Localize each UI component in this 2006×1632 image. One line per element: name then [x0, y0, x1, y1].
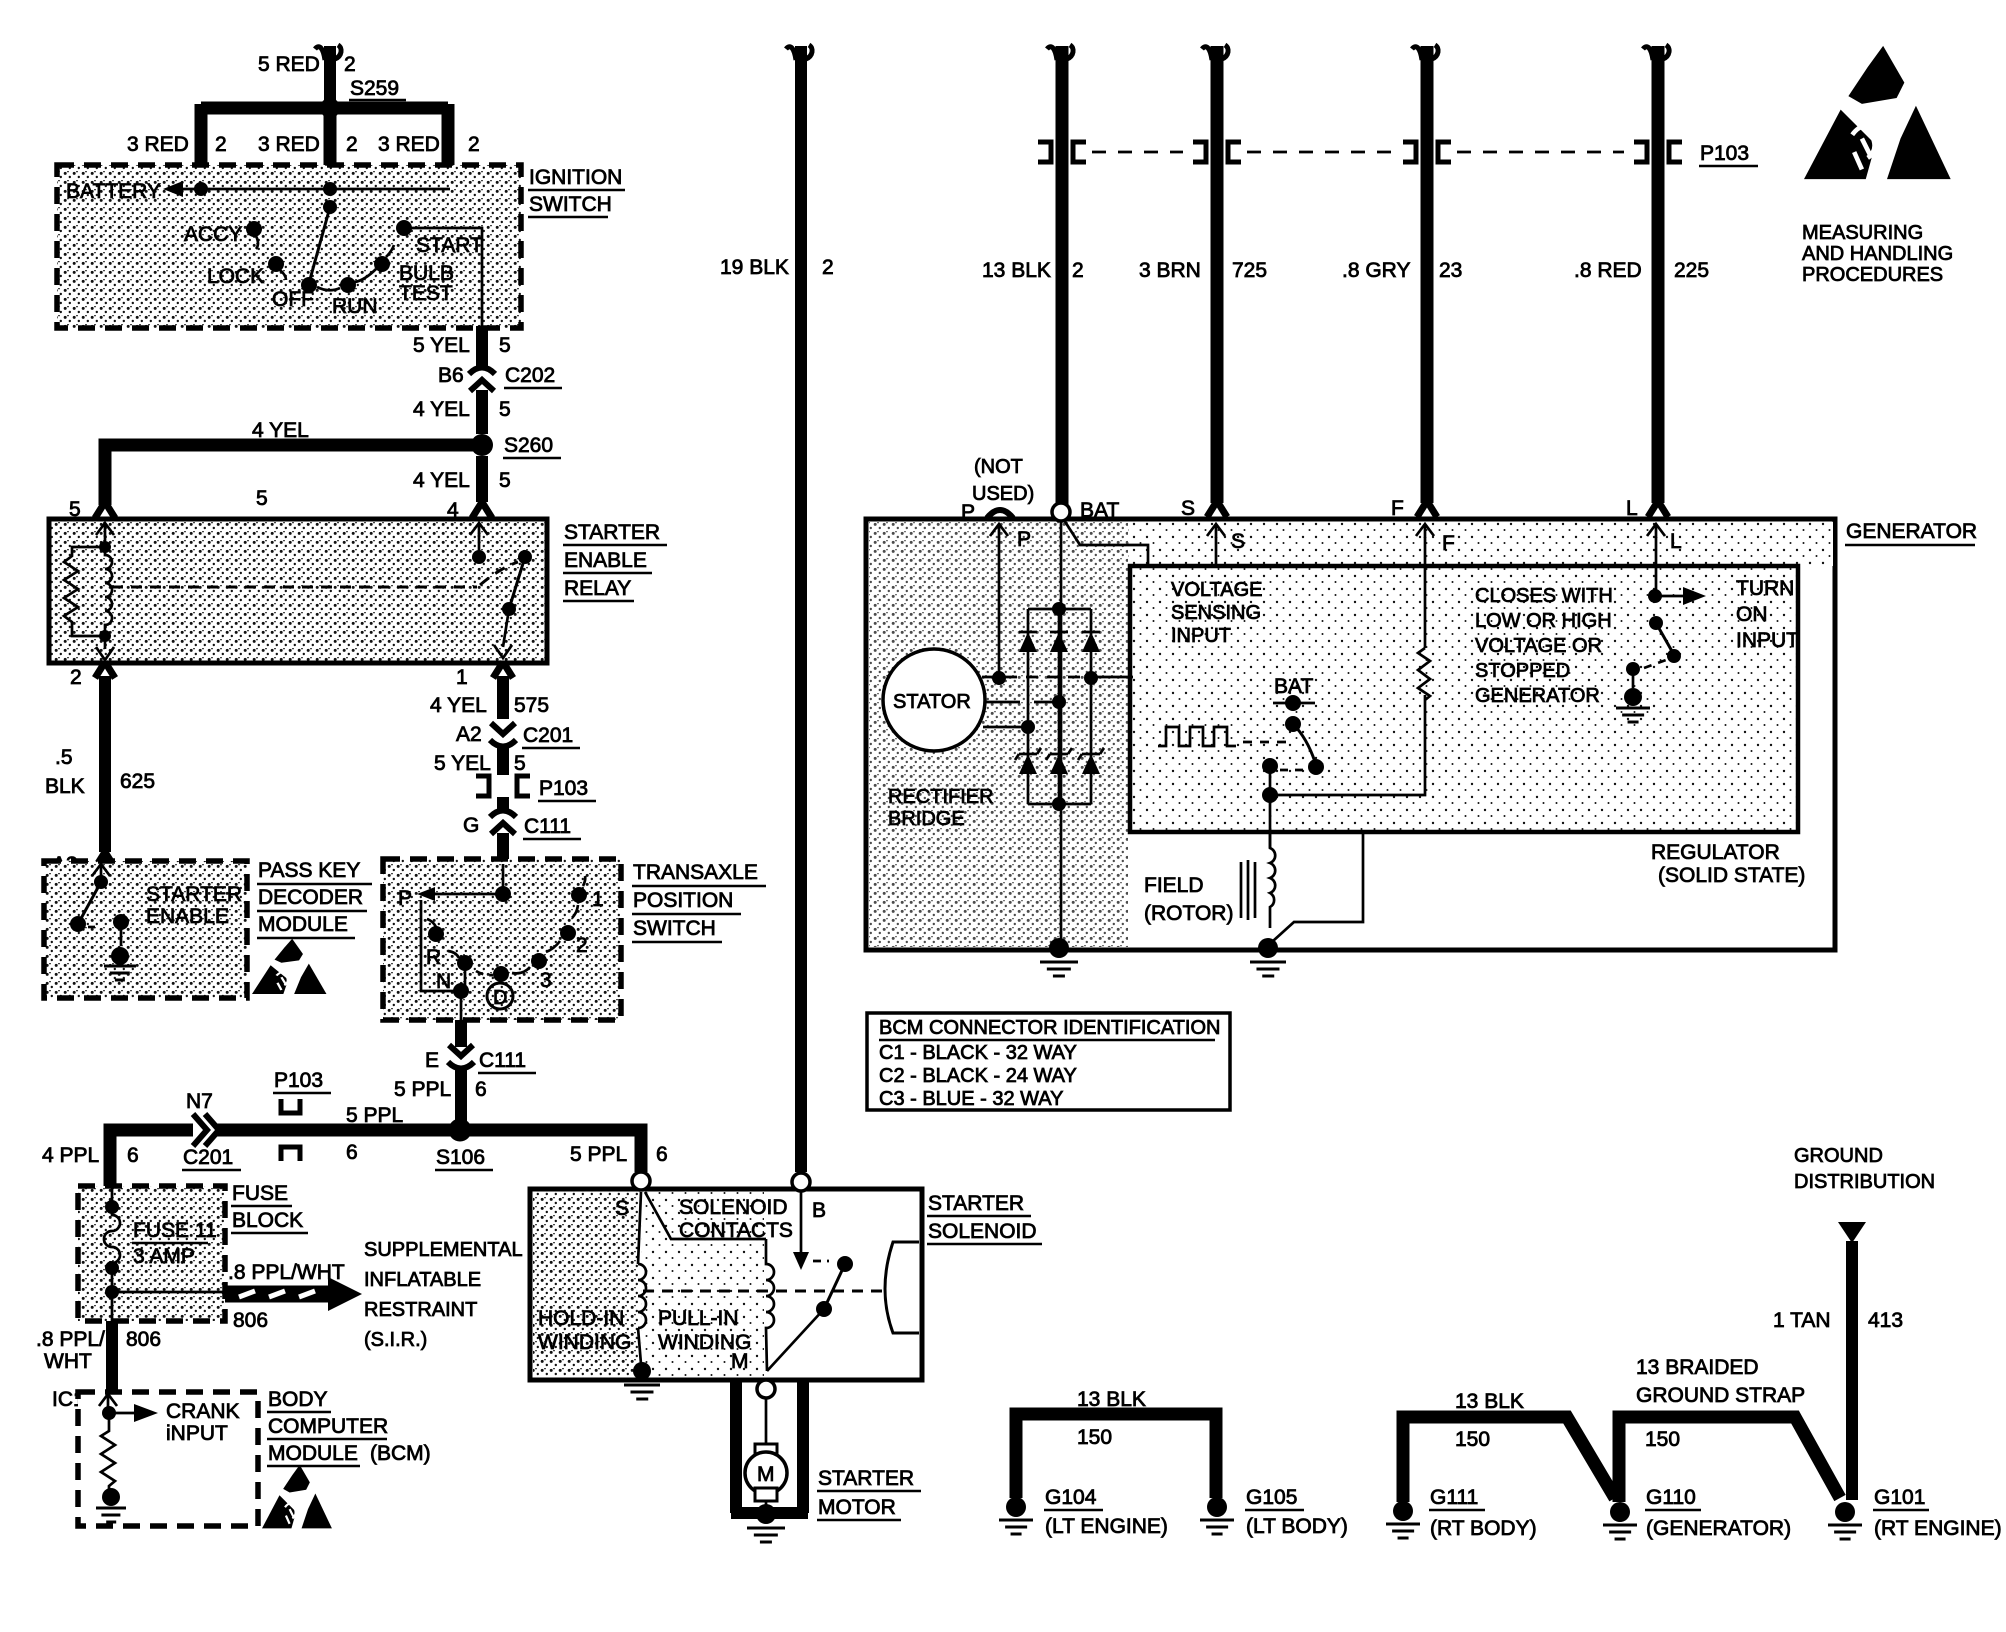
svg-text:IGNITION: IGNITION: [529, 166, 622, 189]
svg-text:3: 3: [540, 969, 552, 992]
svg-text:1 TAN: 1 TAN: [1773, 1309, 1831, 1332]
wire 13 braided ground strap 150 (G110-G101): [1619, 1417, 1840, 1502]
ground (field): [1250, 962, 1286, 976]
svg-text:WINDING: WINDING: [538, 1331, 631, 1354]
crank input arrow: [109, 1412, 136, 1415]
svg-text:3 RED: 3 RED: [378, 133, 440, 156]
starter enable switch entry arrow: [92, 864, 110, 878]
svg-text:725: 725: [1232, 259, 1267, 282]
wire BAT to regulator: [1064, 520, 1148, 564]
svg-text:P103: P103: [1700, 142, 1749, 165]
wire 5 PPL: [455, 1068, 467, 1124]
diodes top row: [1019, 632, 1037, 652]
svg-text:ACCY: ACCY: [184, 223, 242, 246]
starter solenoid box: [530, 1189, 922, 1380]
wire 13 BLK 2: [1056, 46, 1069, 512]
wire 5 PPL main bus: [110, 1130, 641, 1186]
svg-text:13 BLK: 13 BLK: [982, 259, 1051, 282]
svg-text:MEASURING: MEASURING: [1802, 222, 1923, 244]
wire .5 BLK 625: [99, 676, 111, 852]
svg-text:P: P: [1017, 528, 1031, 551]
wire contact to M: [767, 1309, 824, 1371]
svg-text:STARTER: STARTER: [146, 883, 242, 906]
ground stud (motor): [756, 1504, 776, 1524]
svg-text:(RT BODY): (RT BODY): [1430, 1517, 1537, 1540]
contact OFF: [301, 277, 317, 293]
svg-text:5 YEL: 5 YEL: [413, 334, 470, 357]
wire 13 BLK 150 (G104-G105): [1016, 1414, 1216, 1498]
terminal S: [632, 1172, 650, 1190]
turn on arrow: [1660, 595, 1685, 598]
svg-text:M: M: [757, 1463, 775, 1486]
connector C111 (E): [449, 1045, 473, 1056]
svg-text:RESTRAINT: RESTRAINT: [364, 1299, 477, 1321]
node coil top: [99, 541, 111, 553]
svg-text:SWITCH: SWITCH: [633, 917, 716, 940]
svg-text:4 YEL: 4 YEL: [252, 419, 309, 442]
wire end hook top: [315, 45, 341, 60]
svg-text:TEST: TEST: [399, 282, 453, 305]
svg-text:S: S: [1231, 530, 1245, 553]
connector IC11: [102, 1391, 122, 1407]
svg-text:INPUT: INPUT: [1171, 625, 1231, 647]
ground stud G111: [1393, 1501, 1413, 1521]
svg-text:USED): USED): [972, 483, 1034, 505]
wire .8 PPL/WHT 806 below fuse block: [106, 1321, 118, 1390]
svg-text:PULL-IN: PULL-IN: [658, 1307, 739, 1330]
node L switch pivot: [1649, 616, 1663, 630]
connector P103 on bus upper: [281, 1099, 300, 1113]
connector P103 inline: [476, 776, 489, 796]
wire entry to wiper node: [502, 864, 505, 894]
svg-text:6: 6: [346, 1141, 358, 1164]
field rotor coil: [1270, 832, 1275, 928]
svg-text:N: N: [436, 970, 451, 993]
contact BULB TEST: [374, 256, 390, 272]
svg-text:S106: S106: [436, 1146, 485, 1169]
generator box: [866, 519, 1835, 950]
BCM connector identification box: [867, 1013, 1230, 1110]
relay actuator dashed link: [112, 586, 477, 589]
svg-text:ENABLE: ENABLE: [146, 905, 229, 928]
svg-text:C201: C201: [183, 1146, 233, 1169]
circle D: [487, 983, 513, 1009]
svg-text:C1 - BLACK - 32 WAY: C1 - BLACK - 32 WAY: [879, 1042, 1077, 1064]
dash L contacts: [1644, 660, 1666, 668]
svg-text:P103: P103: [274, 1069, 323, 1092]
svg-text:5 PPL: 5 PPL: [346, 1104, 403, 1127]
svg-text:13 BLK: 13 BLK: [1077, 1388, 1146, 1411]
fuse block box: [78, 1186, 225, 1321]
dash N-wiper: [476, 971, 493, 975]
svg-text:(NOT: (NOT: [974, 456, 1023, 478]
body computer module box: [78, 1392, 258, 1526]
S entry arrow: [1207, 524, 1225, 538]
svg-text:2: 2: [344, 53, 356, 76]
svg-text:ENABLE: ENABLE: [564, 549, 647, 572]
ground stud G101: [1835, 1502, 1855, 1522]
svg-text:CONTACTS: CONTACTS: [679, 1219, 793, 1242]
wire B into contacts w/ arrow: [800, 1191, 803, 1252]
svg-text:HOLD-IN: HOLD-IN: [538, 1307, 624, 1330]
connector pin A3: [95, 852, 115, 868]
ground (turn-on): [1616, 708, 1650, 722]
svg-text:5 RED: 5 RED: [258, 53, 320, 76]
connector P103 on bus lower: [281, 1147, 300, 1161]
svg-text:L: L: [1670, 530, 1682, 553]
svg-text:STARTER: STARTER: [928, 1192, 1024, 1215]
contact 1: [571, 887, 587, 903]
relay pin4 entry arrow: [470, 523, 488, 537]
svg-text:F: F: [1391, 497, 1404, 520]
node phase-right column: [1084, 671, 1098, 685]
svg-text:SENSING: SENSING: [1171, 602, 1261, 624]
wire M to motor: [765, 1398, 768, 1444]
hook top 13 BLK: [1047, 45, 1073, 60]
svg-text:C3 - BLUE - 32 WAY: C3 - BLUE - 32 WAY: [879, 1088, 1064, 1110]
svg-text:STOPPED: STOPPED: [1475, 660, 1570, 682]
svg-text:F: F: [1442, 532, 1455, 555]
square wave symbol: [1158, 727, 1236, 746]
svg-text:4 YEL: 4 YEL: [413, 469, 470, 492]
wire drop right 3 RED: [442, 104, 455, 183]
terminal M: [757, 1380, 775, 1398]
svg-text:INFLATABLE: INFLATABLE: [364, 1269, 481, 1291]
svg-text:BRIDGE: BRIDGE: [888, 808, 965, 830]
svg-text:2: 2: [576, 934, 588, 957]
shading pull-in section: [641, 1192, 764, 1377]
contact LOCK: [268, 256, 284, 272]
crank input entry arrow: [99, 1394, 117, 1408]
node switch pivot (regulator): [1285, 716, 1301, 732]
dash to fixed contact: [88, 926, 100, 929]
svg-text:413: 413: [1868, 1309, 1903, 1332]
diodes bottom row (zener): [1019, 754, 1037, 774]
wire output exits box: [460, 991, 463, 1022]
relay contact lower: [502, 602, 516, 616]
wire START to box bottom: [410, 228, 482, 330]
coil (relay winding): [105, 547, 112, 635]
svg-text:STARTER: STARTER: [818, 1467, 914, 1490]
svg-text:BAT: BAT: [1274, 675, 1313, 698]
fuse FUSE 11 3 AMP: [104, 1207, 120, 1268]
wire hold-in to ground: [638, 1328, 641, 1364]
shading hold-in section: [533, 1192, 638, 1377]
node fuse bottom: [105, 1261, 119, 1275]
L arm contact: [1667, 649, 1681, 663]
contact arm end: [1308, 759, 1324, 775]
contact RUN: [340, 277, 356, 293]
contact R: [428, 926, 444, 942]
contact ACCY: [246, 221, 262, 237]
dash between contacts: [1280, 769, 1306, 772]
svg-text:D: D: [493, 987, 507, 1009]
svg-text:G111: G111: [1430, 1486, 1478, 1509]
node entry: [495, 886, 511, 902]
svg-text:GROUND STRAP: GROUND STRAP: [1636, 1384, 1805, 1407]
stator circle: [883, 649, 985, 751]
wire to P contact w/ arrow: [432, 893, 503, 896]
ESD symbol (pass key): [252, 939, 326, 994]
svg-text:REGULATOR: REGULATOR: [1651, 841, 1780, 864]
wire L contact to ground: [1632, 669, 1635, 688]
splice S259: [320, 98, 340, 118]
svg-text:CRANK: CRANK: [166, 1400, 240, 1423]
svg-text:BATTERY: BATTERY: [66, 180, 161, 203]
wire 13 BLK 150 (G111-G110): [1403, 1417, 1615, 1502]
ignition switch box: [57, 165, 521, 328]
svg-text:.8 PPL/: .8 PPL/: [36, 1328, 105, 1351]
P entry arrow: [990, 524, 1008, 538]
svg-text:23: 23: [1439, 259, 1462, 282]
relay fixed contact pin4: [478, 535, 481, 553]
svg-text:(GENERATOR): (GENERATOR): [1646, 1517, 1791, 1540]
splice S106: [449, 1119, 472, 1142]
svg-text:4 YEL: 4 YEL: [430, 694, 487, 717]
wire P loop to output: [421, 900, 458, 991]
svg-text:806: 806: [126, 1328, 161, 1351]
ground (pass key): [104, 966, 136, 980]
svg-text:INPUT: INPUT: [1736, 629, 1799, 652]
svg-text:G104: G104: [1045, 1486, 1097, 1509]
svg-text:VOLTAGE OR: VOLTAGE OR: [1475, 635, 1602, 657]
junction node mid drop: [323, 182, 337, 196]
ground (motor): [747, 1528, 785, 1542]
P103 halves at wire x=1427: [1403, 142, 1416, 162]
svg-text:150: 150: [1455, 1428, 1490, 1451]
svg-text:S260: S260: [504, 434, 553, 457]
resistor (field control): [1418, 648, 1430, 700]
terminal BAT circle: [1052, 503, 1070, 521]
svg-text:3 AMP: 3 AMP: [133, 1245, 195, 1268]
wire drop left 3 RED: [195, 104, 208, 176]
svg-text:SUPPLEMENTAL: SUPPLEMENTAL: [364, 1239, 523, 1261]
ESD symbol (BCM): [262, 1465, 332, 1528]
fixed contact: [113, 914, 129, 930]
wire to ground: [120, 928, 123, 946]
ground stud G110: [1610, 1502, 1630, 1522]
svg-text:(SOLID STATE): (SOLID STATE): [1658, 864, 1805, 887]
ground stud (pass key): [111, 947, 129, 965]
svg-text:3 BRN: 3 BRN: [1139, 259, 1201, 282]
svg-text:LOCK: LOCK: [207, 265, 264, 288]
ESD symbol (measuring/handling): [1804, 46, 1951, 179]
wire 3 BRN 725: [1211, 46, 1224, 503]
svg-text:(LT ENGINE): (LT ENGINE): [1045, 1515, 1168, 1538]
svg-text:P103: P103: [539, 777, 588, 800]
ground (BCM): [96, 1508, 126, 1522]
svg-text:(S.I.R.): (S.I.R.): [364, 1329, 427, 1351]
svg-text:VOLTAGE: VOLTAGE: [1171, 579, 1263, 601]
node BAT contact: [1285, 695, 1301, 711]
svg-text:RUN: RUN: [332, 295, 378, 318]
svg-text:13 BRAIDED: 13 BRAIDED: [1636, 1356, 1759, 1379]
svg-text:SOLENOID: SOLENOID: [679, 1196, 788, 1219]
svg-text:E: E: [425, 1049, 439, 1072]
svg-text:DISTRIBUTION: DISTRIBUTION: [1794, 1171, 1935, 1193]
svg-text:S: S: [615, 1197, 629, 1220]
ground stud G105: [1207, 1497, 1227, 1517]
wire field exit: [1269, 795, 1272, 848]
ground stud (generator BAT): [1049, 938, 1069, 958]
contact 2: [560, 925, 576, 941]
L fixed contact: [1626, 662, 1640, 676]
wire battery feed w/ arrow: [180, 188, 450, 191]
resistor (relay): [64, 547, 105, 636]
node coil bottom: [99, 630, 111, 642]
svg-text:2: 2: [70, 666, 82, 689]
wire S to regulator: [1215, 537, 1218, 566]
connector .8 RED into generator: [1648, 501, 1668, 517]
svg-text:B: B: [812, 1199, 826, 1222]
shading terminal strip: [1128, 522, 1833, 566]
svg-text:MOTOR: MOTOR: [818, 1496, 896, 1519]
wire to C111 E: [455, 1020, 467, 1047]
rectifier bridge rails: [1028, 609, 1091, 804]
node output: [453, 983, 469, 999]
coil pull-in winding: [766, 1239, 774, 1371]
svg-text:N7: N7: [186, 1090, 213, 1113]
node switch pivot: [100, 876, 103, 880]
svg-text:C111: C111: [479, 1049, 526, 1072]
svg-text:BLK: BLK: [45, 775, 85, 798]
L switch arm: [1656, 623, 1673, 653]
svg-text:5: 5: [499, 469, 511, 492]
node phase-mid column: [1052, 695, 1066, 709]
svg-text:FUSE: FUSE: [232, 1182, 288, 1205]
relay armature pivot: [518, 550, 532, 564]
svg-text:M: M: [731, 1350, 749, 1373]
svg-text:6: 6: [127, 1144, 139, 1167]
svg-text:RECTIFIER: RECTIFIER: [888, 786, 994, 808]
svg-text:WHT: WHT: [44, 1350, 92, 1373]
node phase-left column: [1021, 720, 1035, 734]
wire to C111: [497, 797, 509, 812]
regulator box: [1130, 566, 1798, 832]
switch arm (starter enable): [78, 882, 101, 924]
svg-text:G101: G101: [1874, 1486, 1925, 1509]
ground G110: [1603, 1525, 1637, 1539]
node bridge bottom: [1052, 797, 1066, 811]
svg-text:2: 2: [822, 256, 834, 279]
relay coil branch wire: [104, 535, 107, 546]
svg-text:S259: S259: [350, 77, 399, 100]
svg-text:AND HANDLING: AND HANDLING: [1802, 243, 1953, 265]
wire motor to ground: [765, 1501, 768, 1513]
svg-text:LOW OR HIGH: LOW OR HIGH: [1475, 610, 1612, 632]
wire into fuse: [111, 1186, 114, 1206]
svg-text:FIELD: FIELD: [1144, 874, 1204, 897]
wire 4 YEL to relay pin4: [476, 456, 488, 502]
svg-text:R: R: [426, 946, 441, 969]
bridge column mid: [1058, 609, 1061, 804]
svg-text:GENERATOR: GENERATOR: [1475, 685, 1600, 707]
svg-text:.8 GRY: .8 GRY: [1342, 259, 1410, 282]
svg-text:4 PPL: 4 PPL: [42, 1144, 99, 1167]
starter motor frame: [731, 1380, 808, 1513]
svg-text:5: 5: [514, 752, 526, 775]
svg-text:PASS KEY: PASS KEY: [258, 859, 360, 882]
wire L to switch: [1655, 537, 1658, 592]
resistor (BCM): [101, 1413, 115, 1490]
wire drop mid 3 RED: [324, 108, 337, 180]
svg-text:575: 575: [514, 694, 549, 717]
ground G104: [999, 1520, 1033, 1534]
contact N: [457, 955, 473, 971]
svg-text:3 RED: 3 RED: [127, 133, 189, 156]
svg-text:OFF: OFF: [272, 288, 314, 311]
node crank input: [107, 1406, 110, 1410]
L entry arrow: [1647, 524, 1665, 538]
ground stud (solenoid): [633, 1362, 651, 1380]
svg-text:5 YEL: 5 YEL: [434, 752, 491, 775]
wire 4 YEL horizontal bus: [105, 445, 482, 505]
svg-text:5: 5: [256, 487, 268, 510]
dash B-pivot: [813, 1260, 829, 1263]
svg-text:G: G: [463, 814, 479, 837]
svg-text:A2: A2: [456, 723, 482, 746]
ground G111: [1386, 1524, 1420, 1538]
svg-text:2: 2: [346, 133, 358, 156]
svg-text:806: 806: [233, 1309, 268, 1332]
connector C111 (G): [490, 811, 516, 818]
svg-text:GENERATOR: GENERATOR: [1846, 520, 1977, 543]
connector into relay pin5: [95, 502, 115, 518]
connector C201 (A2): [491, 723, 515, 734]
svg-text:P: P: [961, 501, 975, 524]
stator phase top: [982, 676, 1133, 679]
contact 3: [531, 953, 547, 969]
hook top .8 RED: [1643, 45, 1669, 60]
arrow down (ground distribution): [1838, 1222, 1866, 1243]
hook top 19 BLK: [786, 45, 812, 60]
svg-text:RELAY: RELAY: [564, 577, 631, 600]
svg-text:BAT: BAT: [1080, 499, 1119, 522]
svg-text:POSITION: POSITION: [633, 889, 733, 912]
svg-text:S: S: [1181, 497, 1195, 520]
bridge column left: [1027, 609, 1030, 804]
regulator switch arm: [1293, 724, 1315, 762]
svg-text:SWITCH: SWITCH: [529, 193, 612, 216]
connector C202: [469, 368, 495, 375]
wire P to stator phase: [998, 537, 1001, 678]
svg-text:START: START: [416, 234, 483, 257]
stator phase bottom: [983, 726, 1024, 729]
wire tap to SIR: [112, 1291, 225, 1294]
svg-text:MODULE: MODULE: [258, 913, 348, 936]
svg-text:SOLENOID: SOLENOID: [928, 1220, 1037, 1243]
connector N7/C201 on bus: [193, 1114, 219, 1146]
svg-text:G110: G110: [1646, 1486, 1696, 1509]
wire .8 PPL/WHT SIR arrow: [225, 1286, 333, 1303]
node fuse top: [105, 1200, 119, 1214]
svg-text:.8 RED: .8 RED: [1574, 259, 1642, 282]
wire into transaxle switch: [497, 833, 509, 866]
ground G101: [1828, 1525, 1862, 1539]
svg-text:C201: C201: [523, 724, 573, 747]
wire 5 RED vertical: [324, 46, 336, 103]
dashed actuator line (solenoid): [643, 1290, 886, 1293]
hook top .8 GRY: [1412, 45, 1438, 60]
svg-text:MODULE: MODULE: [268, 1442, 358, 1465]
ground stud G104: [1006, 1497, 1026, 1517]
svg-text:225: 225: [1674, 259, 1709, 282]
svg-text:5: 5: [499, 334, 511, 357]
svg-text:STATOR: STATOR: [893, 691, 971, 713]
connector relay pin2: [95, 662, 115, 678]
motor M circle: [745, 1452, 787, 1494]
svg-text:2: 2: [468, 133, 480, 156]
